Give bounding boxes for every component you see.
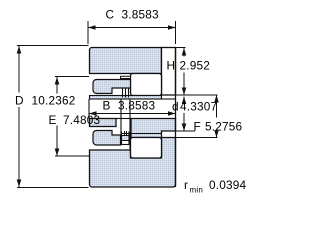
shared extension line y95 for H and F — [176, 94, 218, 96]
dimension H top extension — [176, 47, 186, 49]
dimension D line — [18, 46, 20, 187]
thread marks bottom — [125, 131, 127, 136]
svg-text:D: D — [15, 94, 24, 108]
svg-text:H: H — [167, 59, 176, 73]
svg-text:0.0394: 0.0394 — [209, 178, 247, 192]
svg-text:3.8583: 3.8583 — [118, 99, 156, 113]
inner ring top bar (textured) — [90, 96, 162, 100]
thread marks top — [123, 89, 129, 98]
bottom roller (white) — [131, 138, 162, 159]
dimension C arrows — [88, 25, 96, 30]
top roller (white) — [131, 74, 162, 96]
bottom crossbar block (textured) — [122, 136, 130, 141]
svg-text:3.8583: 3.8583 — [122, 8, 160, 22]
dimension H line — [183, 48, 185, 95]
bore line top half right part — [162, 98, 176, 100]
dimension D extension lines — [17, 46, 89, 188]
top seal capsule (textured) — [93, 80, 131, 94]
inner ring bottom bar left (textured) — [90, 119, 117, 127]
dimension B line — [89, 113, 176, 115]
svg-text:min: min — [190, 186, 204, 195]
dimension C extension lines — [88, 21, 176, 44]
bottom capsule level line across — [121, 144, 132, 146]
dimension F line — [216, 95, 218, 138]
dimension E arrows — [55, 77, 60, 85]
bore bar top line across middle notch — [116, 118, 131, 120]
svg-text:d: d — [172, 100, 179, 114]
dimension F arrows — [214, 95, 219, 103]
dimension E extension lines — [55, 77, 89, 157]
dimension B arrows — [89, 111, 97, 116]
dimension d line — [183, 97, 185, 132]
central web verticals through bore gap — [121, 99, 130, 150]
svg-text:E: E — [49, 113, 57, 127]
bottom H-block legs — [122, 132, 130, 145]
svg-text:r: r — [184, 178, 188, 192]
dimension d bottom extension — [176, 130, 195, 132]
outer ring top section (textured block) — [90, 48, 162, 74]
svg-text:4.3307: 4.3307 — [180, 100, 217, 114]
band line above bottom roller — [121, 133, 162, 135]
svg-text:7.4803: 7.4803 — [63, 113, 101, 127]
svg-text:C: C — [106, 8, 115, 22]
svg-text:B: B — [103, 99, 111, 113]
top slit between capsule and roller — [121, 76, 131, 78]
svg-text:10.2362: 10.2362 — [32, 94, 76, 108]
outer ring bottom section (textured) — [90, 138, 176, 188]
bottom capsule (textured) — [93, 131, 121, 146]
spacer ring top right (white band) — [162, 48, 176, 96]
inner ring bottom right block (textured) — [131, 119, 176, 138]
svg-text:F: F — [194, 120, 201, 134]
right face edge full height — [175, 48, 177, 188]
dimension D arrows — [17, 46, 22, 54]
svg-text:2.952: 2.952 — [180, 59, 211, 73]
left face edge segment at bore gap — [88, 99, 90, 119]
dimension C line — [88, 27, 176, 29]
dimension H arrows — [182, 48, 187, 56]
dimension d arrows — [182, 97, 187, 105]
dimension E line — [56, 77, 58, 156]
dimension F bottom extension — [176, 137, 218, 139]
svg-text:5.2756: 5.2756 — [205, 120, 243, 134]
